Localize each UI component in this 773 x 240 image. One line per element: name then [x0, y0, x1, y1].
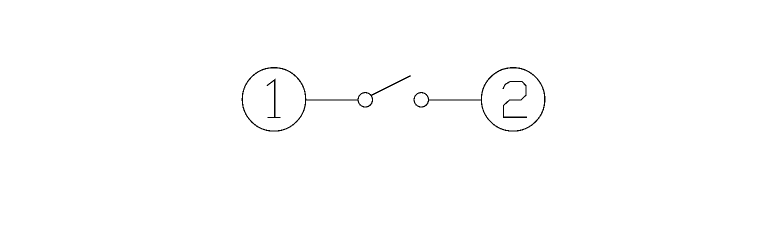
wire node1 to switch contact — [306, 99, 359, 101]
label 1 — [267, 80, 281, 118]
label 2 — [503, 82, 527, 118]
wire switch contact to node 2 — [429, 99, 482, 101]
switch contact circle (right) — [414, 93, 428, 107]
switch contact circle (left) — [358, 93, 372, 107]
switch blade (open) — [371, 76, 411, 96]
node 2 (terminal circle) — [481, 68, 544, 131]
node 1 (terminal circle) — [242, 68, 305, 131]
